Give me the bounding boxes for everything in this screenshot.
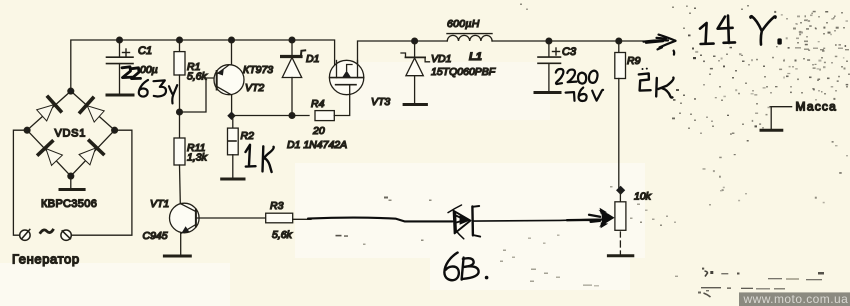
node VT2 collector junction (diamond) bbox=[227, 111, 235, 119]
ground Масса symbol bbox=[761, 107, 792, 131]
handwritten text 6В. bbox=[444, 253, 458, 281]
svg-text:VT2: VT2 bbox=[245, 82, 264, 94]
svg-text:15TQ060PBF: 15TQ060PBF bbox=[431, 66, 496, 78]
terminal left (circle with slash) bbox=[20, 229, 30, 240]
capacitor C3 bbox=[535, 41, 561, 93]
svg-text:1,3k: 1,3k bbox=[187, 152, 208, 164]
node bridge left vertex bbox=[24, 127, 30, 133]
wire top rail left segment bbox=[71, 40, 335, 91]
wire rail from inductor to arrow bbox=[492, 40, 643, 42]
diode bridge bottom-left bbox=[38, 141, 63, 166]
node VT2 emitter top bbox=[229, 37, 235, 43]
handwritten text 14 V. bbox=[700, 16, 776, 45]
svg-text:VD1: VD1 bbox=[431, 53, 451, 65]
watermark bar www.moto.com.ua bbox=[739, 292, 850, 306]
svg-text:VT3: VT3 bbox=[371, 96, 390, 108]
handwritten value 16v (C3) bbox=[566, 88, 604, 101]
scan noise speckles bbox=[336, 4, 850, 298]
svg-text:VDS1: VDS1 bbox=[55, 128, 87, 140]
zener diode D1 bbox=[282, 40, 306, 116]
svg-text:5,6k: 5,6k bbox=[187, 71, 208, 83]
transistor VT3 (MOSFET) bbox=[329, 60, 363, 94]
svg-text:C3: C3 bbox=[562, 46, 577, 58]
resistor R4 bbox=[315, 95, 350, 121]
handwritten value 1k (R2) bbox=[246, 145, 256, 167]
node C1 top bbox=[117, 37, 123, 43]
inductor L1 bbox=[447, 34, 492, 41]
svg-text:C945: C945 bbox=[143, 230, 168, 242]
noise row above watermark bbox=[702, 268, 704, 270]
svg-text:5,6k: 5,6k bbox=[272, 229, 293, 241]
faint marks mid bottom bbox=[531, 269, 536, 271]
handwritten value 63v (C1) bbox=[139, 80, 177, 103]
diode bridge top-right bbox=[80, 98, 105, 123]
ground bridge bottom bbox=[60, 176, 84, 189]
node D1 top bbox=[289, 37, 295, 43]
transistor VT1 (C945 NPN) bbox=[164, 203, 199, 256]
handwritten wiper arrow into potentiometer bbox=[598, 210, 614, 228]
schottky diode VD1 bbox=[401, 41, 430, 105]
diode bridge bottom-right bbox=[78, 141, 103, 166]
resistor R9 bbox=[615, 41, 626, 188]
dashes below feedback wire bbox=[336, 235, 342, 237]
potentiometer R 10k bbox=[608, 190, 632, 255]
resistor R2 bbox=[222, 116, 244, 180]
svg-text:R9: R9 bbox=[627, 55, 641, 67]
node bridge top vertex bbox=[68, 88, 74, 94]
wire bridge left vertex to terminal bbox=[13, 130, 27, 235]
wire R3 to potentiometer wiper bbox=[293, 218, 311, 220]
resistor R3 bbox=[266, 213, 293, 223]
node D1 anode junction bbox=[289, 113, 295, 119]
handwritten overtrace of feedback wire bbox=[308, 218, 453, 222]
svg-text:L1: L1 bbox=[469, 51, 482, 63]
svg-text:КВРС3506: КВРС3506 bbox=[41, 198, 97, 210]
terminal right (circle with slash) bbox=[61, 230, 71, 240]
svg-text:C1: C1 bbox=[138, 45, 152, 57]
wire collector node to R4 bbox=[232, 115, 310, 117]
AC tilde symbol bbox=[41, 230, 53, 233]
wire bridge right vertex to terminal bbox=[71, 130, 131, 235]
resistor R11 bbox=[174, 138, 185, 204]
resistor R1 bbox=[174, 40, 185, 138]
svg-text:Масса: Масса bbox=[796, 100, 837, 114]
svg-text:600µH: 600µH bbox=[447, 18, 480, 30]
svg-text:R2: R2 bbox=[241, 130, 255, 142]
bridge rectifier VDS1 diamond bbox=[27, 91, 115, 176]
svg-text:www.moto.com.ua: www.moto.com.ua bbox=[743, 292, 849, 306]
svg-text:R4: R4 bbox=[311, 98, 325, 110]
svg-text:R3: R3 bbox=[270, 200, 284, 212]
capacitor C1 bbox=[107, 40, 134, 95]
svg-text:D1 1N4742A: D1 1N4742A bbox=[287, 139, 347, 151]
speckles near potentiometer bbox=[630, 218, 633, 220]
node bridge bottom vertex bbox=[68, 173, 74, 179]
node R9 top bbox=[616, 38, 622, 44]
handwritten value 2200 (C3) bbox=[556, 69, 598, 84]
svg-text:10k: 10k bbox=[634, 191, 652, 203]
svg-text:D1: D1 bbox=[306, 53, 319, 65]
handwritten annotations bbox=[122, 16, 782, 281]
node R1 top bbox=[177, 37, 183, 43]
svg-text:VT1: VT1 bbox=[150, 198, 169, 210]
svg-text:00µ: 00µ bbox=[140, 64, 158, 76]
wire VT2 base bbox=[180, 78, 215, 112]
node bridge right vertex bbox=[112, 127, 118, 133]
svg-text:20: 20 bbox=[312, 125, 325, 137]
node R1/R11/VT2-base junction bbox=[177, 109, 183, 115]
handwritten value 2k (R9) bbox=[642, 68, 644, 70]
handwritten zener diode on feedback wire bbox=[448, 205, 480, 239]
node C3 top bbox=[546, 38, 552, 44]
node VD1 top bbox=[412, 38, 418, 44]
handwritten value 22 (C1) bbox=[122, 67, 132, 78]
transistor VT2 (KT973 PNP) bbox=[214, 40, 244, 113]
svg-text:КТ973: КТ973 bbox=[243, 64, 273, 76]
wire VT1 base to R3 bbox=[196, 217, 266, 219]
handwritten arrow 14V output bbox=[644, 35, 676, 55]
svg-text:Генератор: Генератор bbox=[12, 252, 80, 267]
wire top rail right segment bbox=[358, 41, 448, 78]
diode bridge top-left bbox=[35, 97, 60, 122]
node potentiometer top junction (diamond) bbox=[616, 186, 625, 195]
